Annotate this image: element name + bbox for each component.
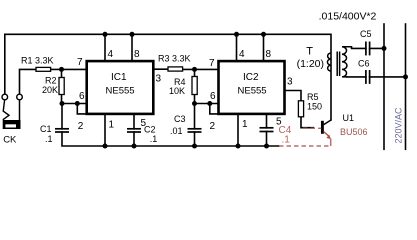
svg-text:CK: CK bbox=[3, 135, 17, 146]
svg-text:T: T bbox=[306, 46, 313, 58]
svg-text:R3 3.3K: R3 3.3K bbox=[158, 54, 191, 64]
svg-text:20K: 20K bbox=[42, 85, 58, 95]
node dot IC2 pin1 ground bbox=[236, 144, 241, 149]
node dot C4 ground bbox=[264, 144, 269, 149]
wire C4 bottom lead bbox=[266, 132, 268, 147]
resistor R2 bbox=[59, 78, 64, 95]
svg-text:4: 4 bbox=[239, 49, 245, 60]
wire R1 right to IC1 pin7 bbox=[51, 68, 87, 70]
svg-text:2: 2 bbox=[78, 121, 84, 132]
svg-text:C6: C6 bbox=[358, 59, 370, 69]
svg-text:NE555: NE555 bbox=[238, 86, 267, 97]
svg-text:R1 3.3K: R1 3.3K bbox=[21, 56, 54, 66]
transistor Q U1 BU506 base bar bbox=[321, 121, 324, 134]
node dot C6 output line B bbox=[403, 74, 408, 79]
svg-text:C3: C3 bbox=[174, 114, 186, 124]
svg-text:6: 6 bbox=[79, 91, 85, 102]
svg-text:.1: .1 bbox=[282, 135, 291, 146]
wire C3 top lead bbox=[194, 104, 196, 129]
svg-text:7: 7 bbox=[77, 57, 83, 68]
transistor collector bbox=[324, 120, 331, 125]
wire output line B bbox=[405, 24, 407, 149]
wire IC1 pin6 bbox=[62, 103, 87, 105]
transistor emitter (red) bbox=[324, 132, 329, 137]
svg-text:.015/400V*2: .015/400V*2 bbox=[319, 11, 377, 23]
node dot IC1 pin8 rail bbox=[130, 32, 135, 37]
node dot pin7 junction IC1 bbox=[59, 67, 64, 72]
wire secondary top to C5 bbox=[352, 47, 366, 49]
svg-text:(1:20): (1:20) bbox=[297, 58, 324, 70]
wire IC2 pin2 jog bbox=[210, 104, 219, 114]
svg-text:R2: R2 bbox=[45, 76, 57, 86]
node dot IC1 pin4 rail bbox=[103, 32, 108, 37]
wire IC2 pin5 to C4 bbox=[266, 115, 268, 128]
wire IC2 pin1 to ground rail bbox=[237, 115, 239, 147]
transformer T secondary winding bbox=[342, 47, 352, 77]
wire switch right contact to CK body bbox=[19, 100, 21, 120]
node dot R3 R4 junction bbox=[192, 67, 197, 72]
switch CK body bbox=[3, 120, 21, 129]
svg-text:.1: .1 bbox=[45, 134, 53, 144]
svg-text:1: 1 bbox=[242, 119, 248, 130]
node dot IC2 pin2 branch bbox=[207, 101, 212, 106]
svg-text:IC1: IC1 bbox=[111, 72, 127, 83]
wire emitter drop (red) bbox=[330, 139, 332, 147]
wire C3 bottom lead bbox=[194, 132, 196, 146]
capacitor C6 bbox=[366, 70, 370, 84]
resistor R5 bbox=[298, 101, 303, 117]
wire R4 bottom lead bbox=[194, 95, 196, 104]
node dot IC2 pin4 rail bbox=[234, 32, 239, 37]
wire IC1 pin1 to ground rail bbox=[104, 115, 106, 147]
svg-text:BU506: BU506 bbox=[340, 127, 368, 137]
svg-text:IC2: IC2 bbox=[243, 72, 259, 83]
wire bottom rail bbox=[62, 132, 279, 146]
svg-text:220V/AC: 220V/AC bbox=[394, 107, 404, 144]
capacitor C3 bbox=[188, 129, 202, 132]
svg-text:.01: .01 bbox=[170, 126, 183, 136]
svg-text:4: 4 bbox=[108, 49, 114, 60]
wire C1 top lead bbox=[61, 104, 63, 129]
wire IC1 pin4 bbox=[104, 34, 106, 61]
svg-text:U1: U1 bbox=[343, 113, 355, 123]
wire IC1 pin8 bbox=[131, 34, 133, 61]
wire top rail bbox=[5, 34, 331, 120]
svg-text:C1: C1 bbox=[40, 124, 52, 134]
wire C6 to output line B bbox=[370, 76, 406, 78]
wire R1 left drop to switch bbox=[20, 69, 37, 94]
resistor R3 bbox=[168, 67, 183, 71]
wire R2 top lead bbox=[61, 69, 63, 77]
node dot IC2 pin6 R4 bbox=[192, 101, 197, 106]
capacitor C2 bbox=[127, 129, 141, 132]
svg-text:3: 3 bbox=[287, 77, 293, 88]
svg-text:5: 5 bbox=[141, 118, 147, 129]
resistor R4 bbox=[192, 77, 197, 95]
svg-text:7: 7 bbox=[209, 58, 215, 69]
wire IC2 pin4 bbox=[236, 34, 238, 61]
svg-text:6: 6 bbox=[210, 91, 216, 102]
svg-text:2: 2 bbox=[210, 121, 216, 132]
wire C2 bottom lead bbox=[133, 132, 135, 146]
wire IC1 pin5 to C2 bbox=[133, 115, 135, 129]
svg-text:R5: R5 bbox=[307, 92, 319, 102]
node dot IC1 pin2 branch bbox=[75, 101, 80, 106]
switch CK lever bbox=[3, 100, 4, 112]
wire IC2 pin6 bbox=[195, 103, 219, 105]
transformer T primary winding bbox=[327, 53, 331, 71]
wire secondary bottom to C6 bbox=[347, 76, 366, 78]
wire R4 top lead bbox=[194, 69, 196, 76]
svg-text:.1: .1 bbox=[150, 134, 158, 144]
IC U1 IC1 NE555 bbox=[87, 61, 154, 114]
node dot IC1 pin6 R2 bbox=[60, 101, 65, 106]
switch CK contact circles bbox=[2, 94, 8, 100]
capacitor C4 bbox=[260, 128, 274, 132]
wire base red dashed overlay bbox=[303, 127, 321, 129]
node dot IC1 pin1 ground bbox=[103, 144, 108, 149]
node dot C2 ground bbox=[132, 144, 137, 149]
wire output line A bbox=[383, 24, 385, 149]
svg-text:NE555: NE555 bbox=[106, 86, 135, 97]
wire IC2 pin3 to R5 bbox=[285, 91, 302, 101]
svg-text:5: 5 bbox=[276, 117, 282, 128]
wire C5 to output line A bbox=[370, 47, 384, 49]
svg-text:1: 1 bbox=[109, 120, 115, 131]
wire R3 right to IC2 pin7 bbox=[183, 68, 219, 70]
wire ground rail red dashed segment bbox=[279, 145, 331, 147]
svg-text:150: 150 bbox=[307, 102, 322, 112]
resistor R1 bbox=[36, 67, 51, 71]
IC IC2 NE555 bbox=[219, 61, 285, 114]
wire R2 bottom lead to node bbox=[61, 95, 63, 104]
wire IC1 pin2 jog bbox=[77, 104, 86, 114]
wire IC2 pin8 bbox=[263, 34, 265, 61]
svg-text:8: 8 bbox=[134, 49, 140, 60]
capacitor C5 bbox=[366, 42, 370, 56]
node dot IC2 pin8 rail bbox=[261, 32, 266, 37]
svg-text:C5: C5 bbox=[360, 29, 372, 39]
transformer core bbox=[336, 52, 338, 77]
svg-text:10K: 10K bbox=[169, 86, 185, 96]
svg-text:8: 8 bbox=[266, 49, 272, 60]
wire IC1 pin3 to R3 bbox=[153, 68, 168, 70]
wire R5 bottom lead to base bbox=[301, 117, 314, 128]
svg-text:3: 3 bbox=[156, 74, 162, 85]
node dot C3 ground bbox=[192, 144, 197, 149]
capacitor C1 bbox=[55, 129, 69, 132]
node dot C5 output line A bbox=[382, 46, 387, 51]
